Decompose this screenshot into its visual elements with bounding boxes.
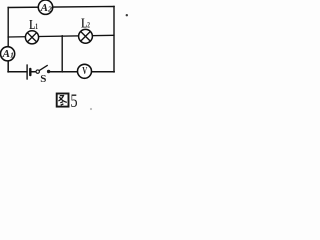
wire from A1 down to bottom-left corner then right to battery <box>8 61 27 72</box>
switch S pivot circle <box>36 70 39 73</box>
wire middle vertical junction to bottom <box>61 36 63 72</box>
battery cell: short thick plate <box>29 69 31 75</box>
svg-text:V: V <box>82 65 87 77</box>
svg-text:L2: L2 <box>81 17 90 32</box>
lamp L2 circle <box>79 29 93 43</box>
svg-text:5: 5 <box>70 91 77 112</box>
svg-text:L1: L1 <box>29 18 38 33</box>
lamp L1 circle <box>25 31 38 44</box>
switch S contact dot <box>47 70 50 73</box>
svg-text:S: S <box>40 73 46 85</box>
svg-text:A2: A2 <box>40 2 52 14</box>
wire switch contact to bottom-right corner (through V) <box>50 71 115 73</box>
label 图 (hand-drawn CJK glyph) <box>57 94 69 107</box>
scan artifact smudge bottom <box>90 108 92 110</box>
wire left vertical below lamp row to A1 <box>7 37 9 48</box>
junction blobs at wire corners/tees <box>7 6 115 73</box>
wire lamp row <box>8 35 114 37</box>
ammeter A2 circle <box>38 0 52 14</box>
switch S blade <box>39 65 47 70</box>
battery cell: long plate <box>26 65 28 79</box>
scan artifact dot right edge <box>126 14 128 16</box>
lamp L1 cross <box>27 33 36 42</box>
wire battery to switch pivot <box>30 71 36 73</box>
wire top: top-left corner to top-right corner <box>8 6 114 71</box>
lamp L2 cross <box>81 32 91 42</box>
ammeter A1 circle <box>1 47 15 61</box>
svg-text:A1: A1 <box>2 48 14 60</box>
voltmeter V circle <box>78 64 92 78</box>
